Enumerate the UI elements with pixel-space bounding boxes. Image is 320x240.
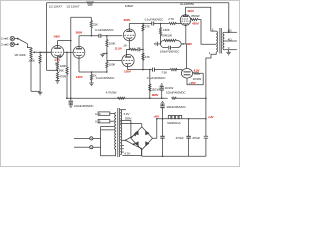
capacitor C3	[138, 47, 140, 51]
wire ground bus	[31, 90, 40, 92]
triode V2b 12BH7 lower envelope	[122, 54, 134, 66]
node feedback tap	[228, 32, 230, 34]
heater feed arrow down	[122, 140, 141, 155]
wire ground to cathode network	[157, 43, 160, 45]
resistor R4 470R	[56, 70, 58, 80]
AC line 1 to primary riser	[93, 127, 114, 139]
node ground rail C8	[162, 156, 164, 158]
secondary heater tap top	[120, 109, 126, 111]
triode V2a 12BH7 upper envelope	[123, 29, 135, 41]
svg-text:470uF: 470uF	[192, 136, 200, 140]
svg-text:100uF/160VDC: 100uF/160VDC	[160, 50, 180, 54]
node rail right end	[205, 97, 207, 99]
OPT secondary winding	[223, 32, 224, 49]
bridge top lead	[141, 124, 143, 127]
node grid leak mid	[106, 53, 108, 55]
capacitor C2 coupling 0.1uF	[99, 34, 101, 38]
svg-text:380V: 380V	[152, 93, 159, 97]
AC switch pole 1	[90, 137, 93, 140]
V2b grid wire	[107, 60, 122, 62]
wire cathode to network	[181, 43, 186, 45]
wire V1b cathode run	[79, 71, 107, 73]
wire J1 to switch contact	[15, 38, 18, 40]
node B+ line rail2	[205, 118, 207, 120]
svg-text:150K: 150K	[163, 28, 170, 32]
resistor R13 15K/1W	[193, 72, 204, 74]
V3 cathode	[183, 22, 189, 25]
secondary heater taps bottom	[122, 140, 126, 152]
divider line from plate wire	[142, 24, 144, 70]
V2a plate wire right	[129, 23, 152, 25]
wire C3 to divider line	[140, 48, 143, 50]
secondary ground lead	[228, 50, 230, 53]
resistor R3 1K cathode	[56, 62, 58, 71]
node grid resistor junction	[106, 35, 108, 37]
triode V1a 12AX7 envelope	[51, 46, 64, 59]
wire pot bottom to ground bus	[30, 63, 32, 91]
svg-text:470R/1W: 470R/1W	[160, 34, 172, 38]
svg-text:100K: 100K	[109, 41, 116, 45]
filter capacitor C8 from rail down	[160, 119, 164, 157]
svg-text:100uF/450VDC: 100uF/450VDC	[166, 105, 186, 109]
svg-text:+HV: +HV	[153, 115, 159, 119]
resistor 1K/1W in rail	[172, 97, 206, 99]
svg-text:130V: 130V	[76, 75, 83, 79]
V2a cathode	[126, 37, 132, 40]
V3 screen resistor 10R/3W	[191, 18, 201, 20]
node shared grid junction	[66, 52, 68, 54]
capacitor C5 0.1uF	[153, 68, 155, 72]
V1a grid wire	[40, 51, 51, 53]
secondary 0 ohm tap	[224, 49, 237, 51]
svg-text:10K: 10K	[88, 3, 93, 7]
resistor R17 470R/1W cathode	[161, 39, 182, 44]
AC line 2 to primary	[93, 130, 116, 156]
bridge rectifier diamond	[131, 127, 153, 150]
resistor R2 10K feedback	[86, 2, 93, 4]
resistor R16 150K grid leak	[159, 24, 161, 44]
input jack J2	[10, 42, 14, 46]
wire C5 to R12	[155, 69, 171, 71]
svg-text:+HV: +HV	[208, 115, 214, 119]
feedback top wire right segment	[94, 2, 229, 4]
wire C2 to V2 grid	[101, 35, 123, 37]
svg-text:0.1uF/400VDC: 0.1uF/400VDC	[145, 17, 165, 21]
resistor R7b 100K	[106, 62, 108, 73]
selector switch SW1 lever	[19, 39, 28, 44]
switch contact A	[17, 38, 19, 40]
V1b plate	[76, 36, 82, 49]
resistor R18 4.7K/5W in rail	[118, 97, 125, 99]
filter capacitor C10 100uF with inverted ground	[160, 102, 164, 119]
ground GND6 sideways	[155, 42, 158, 46]
resistor R15 2.7K grid stopper	[169, 22, 182, 24]
V2a cathode lead down to V2b plate	[126, 38, 129, 57]
choke L1 5H/350mA	[168, 115, 181, 118]
svg-text:100uF/450VDC: 100uF/450VDC	[74, 104, 94, 108]
svg-text:100uF/450VDC: 100uF/450VDC	[166, 90, 186, 94]
HV wire to bridge left	[130, 120, 132, 138]
V1a plate	[54, 41, 61, 49]
bridge diode D4	[145, 141, 149, 146]
resistor R8 1K	[129, 48, 137, 50]
svg-text:VR 100K: VR 100K	[14, 53, 25, 57]
svg-text:15/1W: 15/1W	[151, 88, 159, 92]
wire J2 to switch contact	[15, 43, 18, 45]
feedback wire left leg down	[46, 3, 48, 71]
V2b cathode	[125, 62, 131, 65]
node C11 on rail	[161, 97, 163, 99]
capacitor C11 100uF upper with inverted ground	[160, 84, 164, 98]
svg-text:260V: 260V	[76, 30, 83, 34]
svg-text:150V: 150V	[124, 69, 131, 73]
heater feed arrow up	[126, 134, 137, 141]
node R6 bottom	[91, 35, 93, 37]
V2a grid dashes	[124, 34, 134, 36]
node cathode feedback junction	[57, 70, 59, 72]
triode V1b 12AX7 envelope	[73, 46, 85, 58]
V3 screen grid dashes	[182, 18, 189, 20]
node divider top	[142, 23, 144, 25]
lamp test point	[181, 69, 192, 79]
svg-text:+45V: +45V	[189, 81, 196, 85]
svg-text:12BH7: 12BH7	[125, 4, 134, 8]
svg-text:6.3V: 6.3V	[125, 151, 131, 155]
svg-text:410V: 410V	[187, 9, 194, 13]
resistor R7 100K grid leak V2a	[106, 36, 108, 62]
node plate tap on riser	[70, 40, 72, 42]
ground GND5	[89, 83, 93, 86]
resistor R10 27K	[142, 25, 144, 31]
svg-text:1/2 12AX7: 1/2 12AX7	[66, 4, 80, 8]
svg-text:2 in#2: 2 in#2	[1, 42, 9, 46]
V3 plate	[183, 7, 188, 16]
svg-text:350V: 350V	[125, 116, 132, 120]
svg-text:100K: 100K	[109, 62, 116, 66]
resistor R14 15K/1W dropper	[149, 84, 151, 91]
node R13 to B+ line	[187, 73, 203, 85]
resistor R9 1K to ground	[90, 72, 92, 83]
ground GND3	[69, 105, 73, 108]
svg-text:27K: 27K	[145, 24, 150, 28]
X-cap CX2 box	[98, 120, 114, 123]
bridge diode D1	[134, 130, 138, 135]
B+ distribution rail	[66, 97, 168, 99]
T1 secondary winding	[120, 110, 122, 155]
bridge bottom lead	[141, 150, 143, 157]
node SRPP midpoint	[129, 49, 131, 51]
svg-text:1/2 12AX7: 1/2 12AX7	[49, 4, 63, 8]
wire wiper to grid node	[35, 51, 52, 53]
node heater tap	[125, 140, 127, 142]
svg-text:100K: 100K	[28, 58, 35, 62]
resistor R5 grid leak of V1b	[66, 52, 68, 98]
svg-text:2 in#1: 2 in#1	[1, 37, 9, 41]
feedback wire into cathode node	[47, 69, 58, 71]
wire V1a grid to V2 grid	[64, 51, 73, 53]
wire up to C4	[106, 71, 108, 73]
V3 control grid dashes	[181, 20, 189, 22]
svg-text:11.5V: 11.5V	[115, 46, 122, 50]
secondary 4 ohm tap	[224, 40, 237, 42]
screen UL tap wire	[201, 20, 216, 45]
secondary HV tap upper	[120, 119, 131, 121]
ground GND7	[226, 52, 230, 55]
V1a grid dashes	[52, 51, 63, 53]
ground GND4	[100, 53, 107, 56]
svg-text:47K: 47K	[145, 55, 150, 59]
wire C6 to grid stopper	[154, 23, 169, 25]
pentode V3 EL34 envelope	[180, 15, 191, 26]
V1a plate wire to B+ riser	[58, 40, 71, 42]
feedback top wire left segment	[47, 2, 87, 4]
ground GND2	[55, 81, 59, 84]
V1b cathode lead down	[78, 56, 80, 72]
secondary 8 ohm tap	[224, 31, 237, 33]
node EL34 grid leak junction	[160, 23, 162, 25]
svg-text:0.1uF/400VDC: 0.1uF/400VDC	[95, 28, 115, 32]
V3 cathode lead	[185, 24, 188, 68]
ground GND1	[38, 91, 42, 95]
wire V2b cathode output run	[128, 69, 152, 71]
capacitor C6 0.1uF coupling to EL34	[152, 22, 154, 26]
node divider mid	[142, 49, 144, 51]
svg-text:250V: 250V	[124, 18, 131, 22]
volume pot VR1 100K body	[30, 48, 32, 63]
svg-text:2.7K: 2.7K	[168, 17, 174, 21]
svg-text:0.1F: 0.1F	[95, 112, 101, 116]
node grid1 junction	[39, 52, 41, 54]
pot wiper arrow	[32, 51, 35, 53]
node 1K junction	[91, 71, 93, 73]
svg-text:EL34/6550: EL34/6550	[180, 2, 194, 6]
svg-text:140V: 140V	[53, 34, 60, 38]
svg-text:420V: 420V	[192, 22, 199, 26]
svg-text:0.1uF/400VDC: 0.1uF/400VDC	[96, 76, 116, 80]
input jack J1	[10, 36, 14, 40]
switch contact B	[17, 44, 19, 46]
AC line 1	[74, 137, 90, 139]
PSU plus rail	[157, 118, 206, 120]
svg-text:5H/350mA: 5H/350mA	[167, 121, 180, 125]
svg-text:0.1F: 0.1F	[95, 119, 101, 123]
svg-text:56K: 56K	[59, 69, 64, 73]
svg-text:22K: 22K	[93, 22, 98, 26]
svg-text:85/3W: 85/3W	[191, 14, 199, 18]
resistor R12 15K	[170, 69, 182, 71]
local rail top	[71, 16, 92, 18]
PSU ground rail	[142, 155, 206, 157]
svg-text:4.7K/5W: 4.7K/5W	[106, 91, 117, 95]
V2b plate bar	[125, 56, 131, 58]
V1a cathode	[54, 54, 61, 57]
resistor R1 100K grid leak	[39, 52, 41, 91]
V2b grid dashes	[123, 60, 133, 62]
OPT primary winding	[211, 31, 218, 52]
node riser rail crossing	[70, 97, 72, 99]
node dropper junction	[149, 69, 151, 71]
AC line 2	[74, 146, 90, 148]
svg-text:1K/1W: 1K/1W	[165, 86, 174, 90]
svg-text:7.5K: 7.5K	[161, 71, 167, 75]
node divider bottom	[142, 69, 144, 71]
bridge plus lead	[153, 119, 157, 139]
V2b cathode lead	[127, 64, 129, 70]
node dropper rail crossing	[149, 97, 151, 99]
svg-text:1K: 1K	[123, 44, 127, 48]
dropper line to PSU	[149, 70, 151, 99]
wire switch common to pot top	[27, 44, 31, 48]
node cathode join	[183, 43, 185, 45]
filter capacitor C9	[186, 119, 190, 157]
secondary HV tap lower	[120, 123, 142, 125]
node C9 top	[188, 118, 190, 120]
svg-text:470R: 470R	[59, 75, 67, 79]
capacitor C7 bypass	[161, 44, 182, 50]
node C10 bottom	[162, 118, 164, 120]
V1b cathode	[76, 54, 82, 57]
X-cap CX1 box	[98, 112, 114, 115]
bridge diode D2	[145, 130, 149, 135]
OPT core	[220, 28, 221, 54]
V1b grid dashes	[74, 52, 84, 54]
bridge diode D3	[134, 141, 138, 146]
node bridge plus on rail	[156, 118, 158, 120]
OPT primary bottom lead to B+	[204, 52, 217, 156]
svg-text:470uF: 470uF	[176, 136, 184, 140]
capacitor C1 100uF/450VDC	[69, 101, 74, 105]
V1a cathode lead	[58, 55, 61, 62]
svg-text:100K: 100K	[60, 64, 67, 68]
resistor R11 47K	[142, 53, 144, 60]
svg-text:4.5V: 4.5V	[194, 68, 200, 72]
resistor R6 22K plate load	[90, 17, 92, 36]
B+ riser long line	[70, 17, 72, 100]
power transformer T1 primary winding	[115, 113, 116, 150]
svg-text:36V: 36V	[187, 42, 192, 46]
svg-text:1K: 1K	[93, 74, 97, 78]
V2a plate	[126, 24, 132, 32]
AC switch pole 2	[90, 146, 93, 149]
V3 plate wire to OPT	[186, 7, 211, 31]
node grid leak line to rail	[66, 97, 68, 99]
T1 core	[118, 108, 120, 157]
feedback wire down to 8ohm tap	[228, 3, 230, 33]
plate node wire	[79, 35, 99, 37]
